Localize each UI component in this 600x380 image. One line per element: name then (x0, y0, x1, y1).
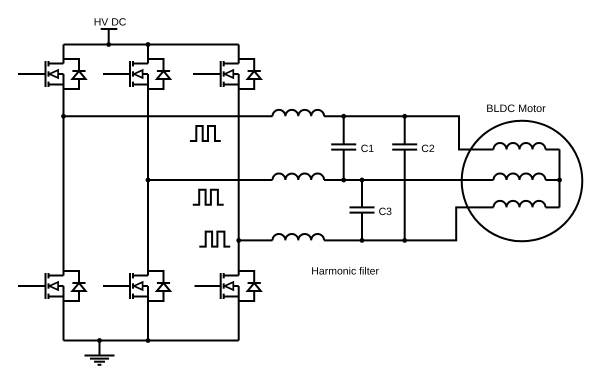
wire: phase B node to filter inductor LB (148, 179, 273, 181)
wire: low-side source to negative bus (phase B) (147, 286, 149, 341)
Q5 channel segments (132, 273, 134, 278)
wire: phase C node to filter inductor LC (239, 239, 273, 241)
junction: phase B leg / top bus (146, 42, 151, 47)
motor winding phase C (494, 201, 546, 208)
Q6 source stub (224, 296, 239, 298)
Q6 gate bar (220, 273, 222, 299)
junction: phase C output node (236, 238, 241, 243)
svg-text:HV DC: HV DC (94, 16, 127, 28)
wire: LA to motor phase A entry (324, 116, 493, 149)
transistor Q3 (N-MOSFET with body diode) (193, 59, 261, 89)
wire: low-side source to negative bus (phase C) (238, 286, 240, 341)
junction: C3 top on phase B line (360, 178, 365, 183)
wire: low-side source to negative bus (phase A) (63, 286, 65, 341)
Q5 drain stub (133, 275, 148, 277)
svg-text:C2: C2 (421, 143, 435, 155)
Q4 gate bar (45, 273, 47, 299)
Q1 gate bar (45, 61, 47, 87)
BLDC motor body (circle) (462, 121, 583, 242)
Q3 drain stub (224, 63, 239, 65)
Q3 gate lead (193, 73, 221, 75)
inductor LB (phase B filter) (273, 174, 325, 180)
PWM gate signal symbol (phase A) (190, 126, 221, 141)
wire: winding A to star point (546, 149, 560, 151)
Q2 drain stub (133, 63, 148, 65)
wire: winding C to star point (546, 206, 560, 208)
transistor Q4 (N-MOSFET with body diode) (18, 271, 86, 301)
junction: phase A output node (61, 114, 66, 119)
Q5 gate lead (103, 285, 130, 287)
ground (85, 341, 115, 365)
junction: C3 bottom on phase C line (360, 238, 365, 243)
wire: QC high-side source to phase C node (238, 74, 240, 240)
Q3 channel segments (223, 61, 225, 66)
wire: LC to motor phase C entry (324, 207, 493, 240)
wire: phase A node to filter inductor LA (64, 115, 273, 117)
inductor LA (phase A filter) (273, 110, 325, 116)
Q1 channel segments (48, 61, 50, 66)
svg-text:C1: C1 (361, 143, 375, 155)
Q2 body diode (148, 59, 164, 71)
Q4 channel segments (48, 273, 50, 278)
wire: phase B node down to low-side drain (147, 180, 149, 276)
HV DC supply terminal (101, 29, 118, 45)
junction: ground tap on bottom bus (97, 338, 102, 343)
Q5 body line with arrow (133, 285, 148, 287)
Q2 channel segments (132, 61, 134, 66)
junction: C2 top on phase A line (402, 114, 407, 119)
transistor Q1 (N-MOSFET with body diode) (18, 59, 86, 89)
junction: motor star point (557, 178, 562, 183)
Q2 source stub (133, 84, 148, 86)
wire: QA high-side source to phase A node (63, 74, 65, 116)
transistor Q2 (N-MOSFET with body diode) (103, 59, 170, 89)
capacitor C2 (phase A to phase C) (392, 116, 417, 240)
wire: phase A node down to low-side drain (63, 116, 65, 275)
wire: top bus to QC high-side drain (phase C leg) (238, 45, 240, 64)
Q6 channel segments (223, 273, 225, 278)
Q1 drain stub (49, 63, 64, 65)
transistor Q6 (N-MOSFET with body diode) (195, 271, 261, 301)
Q3 gate bar (220, 61, 222, 87)
Q4 gate lead (18, 285, 46, 287)
inductor LC (phase C filter) (273, 234, 325, 240)
wire: negative DC rail (bottom bus) (64, 340, 239, 342)
svg-text:C3: C3 (379, 206, 393, 218)
Q1 gate lead (18, 73, 46, 75)
junction: phase B leg / bottom bus (146, 338, 151, 343)
junction: HV DC tap on top bus (106, 42, 111, 47)
transistor Q5 (N-MOSFET with body diode) (103, 271, 170, 301)
Q1 source stub (49, 84, 64, 86)
Q3 body diode (239, 59, 255, 71)
Q6 body diode (239, 271, 255, 283)
Q3 source stub (224, 84, 239, 86)
Q6 body line with arrow (224, 285, 239, 287)
Q4 drain stub (49, 275, 64, 277)
Q4 body diode (64, 271, 80, 283)
Q6 gate lead (195, 285, 221, 287)
motor winding phase A (494, 143, 546, 150)
junction: phase B output node (146, 178, 151, 183)
wire: LB to motor winding B (324, 179, 493, 181)
junction: C2 bottom on phase C line (402, 238, 407, 243)
wire: positive DC rail (top bus) (64, 44, 239, 46)
wire: QB high-side source to phase B node (147, 74, 149, 180)
Q4 body line with arrow (49, 285, 64, 287)
wire: star connection (559, 150, 561, 208)
wire: phase C node down to low-side drain (238, 240, 240, 275)
Q6 drain stub (224, 275, 239, 277)
Q2 gate bar (129, 61, 131, 87)
Q1 body line with arrow (49, 73, 64, 75)
Q5 gate bar (129, 273, 131, 299)
Q5 source stub (133, 296, 148, 298)
Q2 gate lead (103, 73, 130, 75)
PWM gate signal symbol (phase B) (193, 190, 224, 205)
svg-text:BLDC Motor: BLDC Motor (486, 103, 546, 115)
motor winding phase B (494, 174, 546, 181)
wire: winding B to star point (546, 179, 560, 181)
Q5 body diode (148, 271, 164, 283)
Q4 source stub (49, 296, 64, 298)
PWM gate signal symbol (phase C) (199, 232, 230, 247)
capacitor C3 (phase B to phase C) (350, 180, 375, 240)
Q2 body line with arrow (133, 73, 148, 75)
svg-text:Harmonic filter: Harmonic filter (311, 265, 379, 277)
wire: top bus to QB high-side drain (phase B leg) (147, 45, 149, 64)
Q1 body diode (64, 59, 80, 71)
Q3 body line with arrow (224, 73, 239, 75)
wire: top bus to QA high-side drain (phase A leg) (63, 45, 65, 64)
junction: C1 bottom on phase B line (341, 178, 346, 183)
capacitor C1 (phase A to phase B) (331, 116, 356, 180)
junction: C1 top on phase A line (341, 114, 346, 119)
